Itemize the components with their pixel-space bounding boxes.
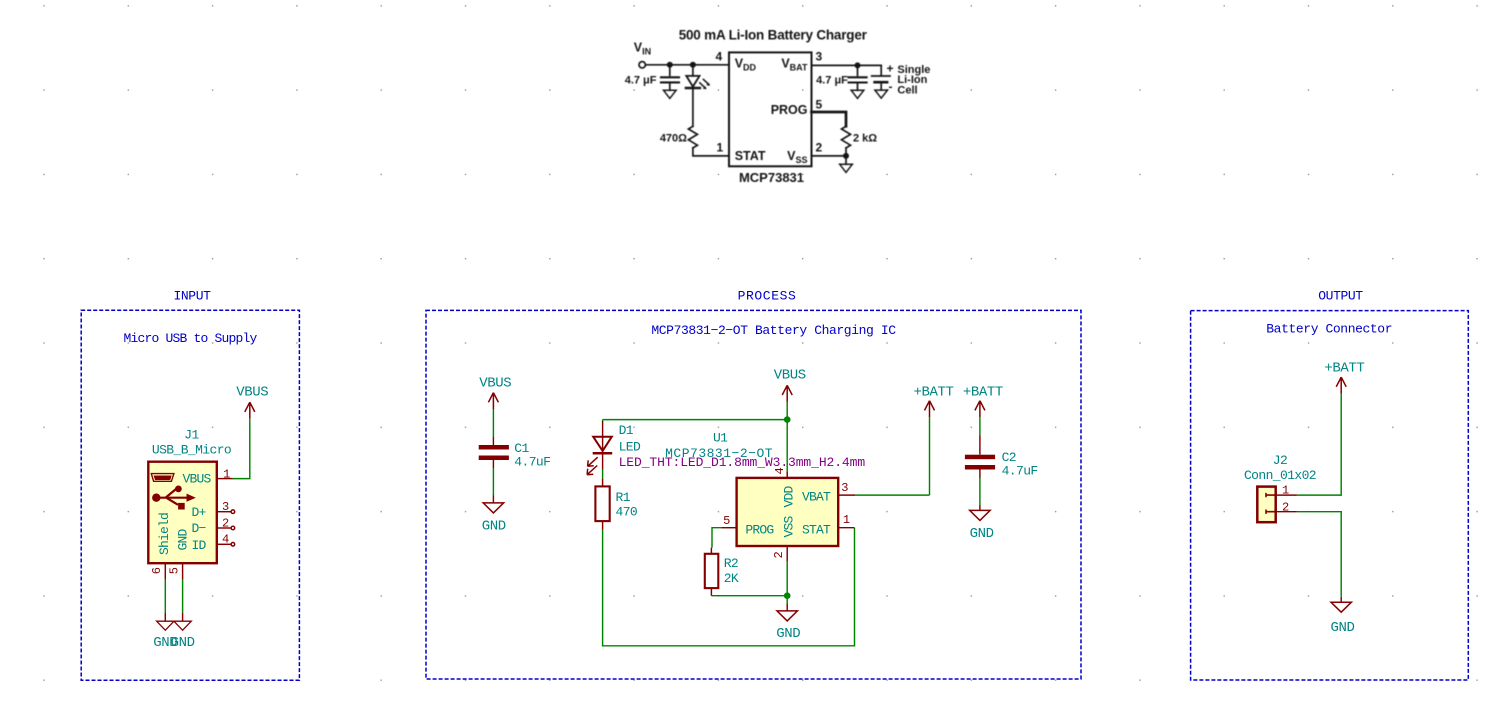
svg-text:3: 3: [222, 500, 229, 514]
svg-text:2: 2: [1282, 500, 1289, 514]
svg-text:R2: R2: [724, 556, 738, 571]
svg-text:PROCESS: PROCESS: [738, 289, 797, 304]
svg-text:2 kΩ: 2 kΩ: [853, 133, 877, 145]
svg-text:PROG: PROG: [771, 103, 808, 117]
svg-text:2: 2: [772, 552, 786, 559]
svg-text:5: 5: [816, 98, 823, 112]
svg-text:MCP73831−2−OT Battery Charging: MCP73831−2−OT Battery Charging IC: [651, 323, 896, 338]
svg-text:J2: J2: [1273, 453, 1287, 468]
svg-text:U1: U1: [713, 431, 728, 446]
svg-text:J1: J1: [184, 428, 199, 443]
svg-text:Cell: Cell: [897, 85, 917, 97]
svg-text:4.7 μF: 4.7 μF: [816, 75, 848, 87]
svg-text:VBUS: VBUS: [236, 384, 268, 400]
svg-text:Battery Connector: Battery Connector: [1266, 322, 1392, 337]
svg-text:4.7 μF: 4.7 μF: [625, 75, 657, 87]
svg-text:+: +: [887, 62, 894, 76]
svg-text:D1: D1: [619, 423, 634, 438]
svg-text:VSS: VSS: [782, 516, 797, 538]
svg-text:INPUT: INPUT: [173, 289, 211, 304]
svg-text:VBAT: VBAT: [802, 490, 831, 505]
svg-text:STAT: STAT: [802, 522, 831, 537]
svg-text:+BATT: +BATT: [913, 384, 953, 400]
svg-text:VDD: VDD: [782, 486, 797, 508]
svg-text:GND: GND: [171, 635, 195, 651]
svg-text:5: 5: [168, 567, 182, 574]
svg-text:MCP73831: MCP73831: [739, 170, 804, 185]
svg-text:ID: ID: [191, 538, 206, 553]
svg-text:GND: GND: [482, 519, 506, 535]
svg-text:1: 1: [717, 141, 724, 155]
svg-text:4: 4: [222, 532, 229, 546]
svg-text:4: 4: [715, 50, 722, 64]
svg-text:+BATT: +BATT: [963, 384, 1003, 400]
svg-text:GND: GND: [970, 526, 994, 542]
svg-text:1: 1: [843, 513, 850, 527]
svg-text:R1: R1: [616, 490, 631, 505]
svg-text:500 mA Li-Ion Battery Charger: 500 mA Li-Ion Battery Charger: [679, 27, 868, 42]
svg-text:VBUS: VBUS: [479, 376, 511, 392]
svg-text:Micro USB to Supply: Micro USB to Supply: [123, 331, 257, 346]
svg-text:1: 1: [223, 467, 230, 481]
svg-text:USB_B_Micro: USB_B_Micro: [152, 442, 231, 457]
svg-text:Shield: Shield: [157, 513, 172, 555]
svg-text:2K: 2K: [724, 571, 739, 586]
svg-text:VBUS: VBUS: [182, 471, 211, 486]
svg-text:5: 5: [723, 514, 730, 528]
svg-text:GND: GND: [776, 626, 800, 642]
svg-text:OUTPUT: OUTPUT: [1318, 289, 1363, 304]
svg-text:STAT: STAT: [735, 149, 766, 163]
svg-text:D−: D−: [191, 521, 206, 536]
svg-text:VBUS: VBUS: [774, 368, 806, 384]
svg-text:2: 2: [222, 517, 229, 531]
svg-text:4: 4: [773, 468, 787, 475]
svg-text:1: 1: [1282, 484, 1289, 498]
svg-text:PROG: PROG: [745, 522, 773, 537]
svg-text:-: -: [889, 80, 893, 94]
svg-text:470Ω: 470Ω: [660, 133, 687, 145]
svg-text:LED: LED: [619, 440, 641, 455]
svg-text:Conn_01x02: Conn_01x02: [1244, 468, 1316, 483]
svg-text:D+: D+: [191, 505, 206, 520]
svg-text:GND: GND: [175, 529, 190, 551]
svg-text:4.7uF: 4.7uF: [1002, 463, 1038, 478]
svg-text:GND: GND: [1330, 620, 1354, 636]
svg-text:MCP73831−2−OT: MCP73831−2−OT: [665, 446, 773, 461]
svg-text:3: 3: [841, 481, 848, 495]
svg-text:6: 6: [150, 567, 164, 574]
svg-text:+BATT: +BATT: [1324, 361, 1364, 377]
svg-text:3: 3: [816, 50, 823, 64]
svg-text:2: 2: [816, 141, 823, 155]
svg-text:4.7uF: 4.7uF: [514, 455, 550, 470]
svg-text:470: 470: [616, 505, 638, 520]
